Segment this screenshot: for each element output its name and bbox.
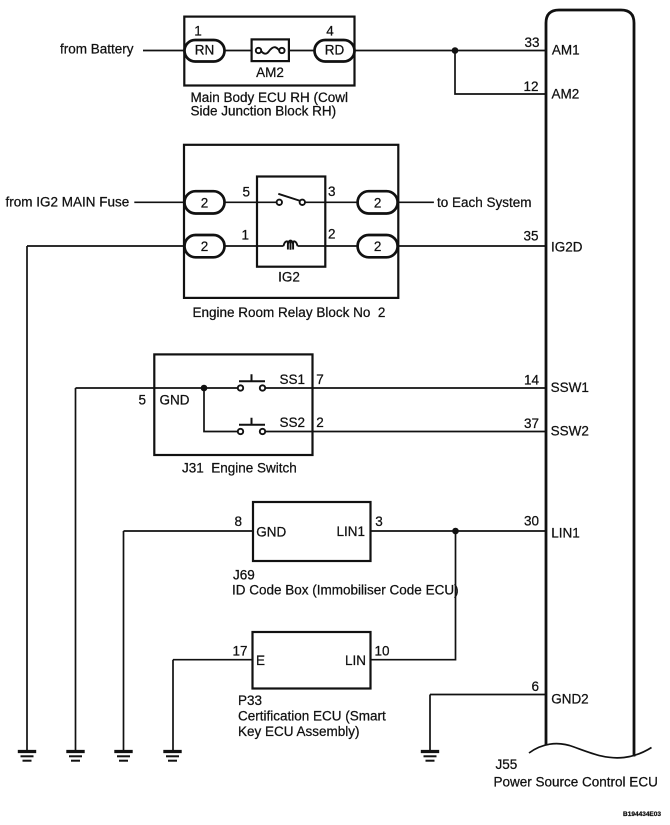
junction node on AM1 wire	[452, 47, 459, 54]
wire SS1 to J55 pin 14 SSW1	[265, 387, 546, 389]
wire left oval row1 to relay pin 5	[225, 201, 277, 203]
ground symbol 3	[114, 752, 132, 761]
svg-text:2: 2	[201, 195, 209, 210]
svg-text:IG2: IG2	[278, 270, 300, 285]
connector J55 Power Source Control ECU body	[546, 10, 634, 757]
svg-text:7: 7	[316, 372, 324, 387]
svg-text:12: 12	[523, 79, 538, 94]
svg-text:3: 3	[328, 184, 336, 199]
wire relay pin 3 to right oval row1	[305, 201, 358, 203]
svg-text:B194434E03: B194434E03	[623, 811, 661, 818]
wire SS2 to J55 pin 37 SSW2	[265, 431, 546, 433]
svg-text:LIN: LIN	[345, 653, 366, 668]
svg-text:6: 6	[531, 679, 539, 694]
ground riser 4 (from P33 E)	[172, 660, 174, 751]
svg-text:5: 5	[242, 185, 250, 200]
box P33 Certification ECU	[253, 632, 371, 689]
svg-text:ID Code Box (Immobiliser Code: ID Code Box (Immobiliser Code ECU)	[232, 583, 459, 598]
ground symbol 1	[18, 752, 36, 761]
svg-text:P33: P33	[238, 693, 262, 708]
svg-text:SS2: SS2	[280, 415, 306, 430]
switch SS2 (push button)	[238, 429, 243, 434]
svg-text:1: 1	[241, 228, 249, 243]
svg-text:from IG2 MAIN Fuse: from IG2 MAIN Fuse	[6, 195, 130, 210]
connector oval 2 (left, row 2)	[185, 235, 225, 257]
wire from IG2 MAIN Fuse to left oval row 1	[134, 201, 184, 203]
svg-text:35: 35	[523, 229, 538, 244]
svg-text:5: 5	[138, 393, 146, 408]
box Engine Room Relay Block No 2	[184, 145, 398, 298]
ground symbol 4	[163, 752, 181, 761]
svg-text:4: 4	[326, 24, 334, 39]
svg-text:LIN1: LIN1	[336, 524, 365, 539]
svg-text:GND2: GND2	[551, 692, 589, 707]
svg-text:2: 2	[374, 195, 382, 210]
ground riser 2 (from J31 GND)	[75, 388, 77, 751]
svg-text:1: 1	[194, 24, 202, 39]
svg-text:17: 17	[232, 644, 247, 659]
svg-text:AM1: AM1	[552, 43, 580, 58]
svg-text:RD: RD	[325, 43, 345, 58]
junction node inside J31	[201, 385, 208, 392]
wire P33 E (pin 17) to ground riser	[173, 659, 253, 661]
svg-text:SSW1: SSW1	[551, 380, 589, 395]
relay IG2 coil	[284, 241, 298, 246]
wire row2 left: to ground riser	[27, 245, 185, 247]
wire RD to J55 pin 33 AM1	[355, 50, 547, 52]
ground riser 5 (from GND2)	[429, 695, 431, 752]
ground symbol 2	[66, 752, 84, 761]
wire relay coil to right oval row2	[298, 245, 358, 247]
box J31 Engine Switch	[154, 354, 312, 455]
svg-text:GND: GND	[160, 393, 190, 408]
svg-text:SSW2: SSW2	[551, 424, 589, 439]
svg-text:14: 14	[524, 373, 540, 388]
svg-text:LIN1: LIN1	[551, 526, 580, 541]
wire right oval row1 to Each System	[398, 201, 434, 203]
svg-text:J55: J55	[496, 757, 518, 772]
svg-text:10: 10	[375, 644, 390, 659]
svg-text:2: 2	[316, 415, 324, 430]
relay IG2 switch contacts	[277, 200, 282, 205]
wire J55 pin 6 GND2 to ground	[430, 694, 546, 696]
svg-text:J31 Engine Switch: J31 Engine Switch	[182, 461, 297, 476]
ground symbol 5	[421, 752, 439, 761]
svg-text:Key ECU Assembly): Key ECU Assembly)	[238, 724, 360, 739]
svg-text:Certification ECU (Smart: Certification ECU (Smart	[238, 709, 386, 724]
switch SS1 (push button)	[238, 385, 243, 390]
svg-text:Engine Room Relay Block No 2: Engine Room Relay Block No 2	[193, 305, 386, 320]
wire junction down to SS2 row	[204, 388, 238, 432]
relay IG2 switch arm	[278, 194, 300, 201]
wire GND (pin5) into switch box	[76, 387, 238, 389]
svg-text:AM2: AM2	[552, 87, 580, 102]
junction node on LIN1 wire	[452, 528, 459, 535]
wire from Battery to RN	[143, 50, 185, 52]
ground riser 3 (from J69 GND)	[123, 531, 125, 751]
svg-text:E: E	[256, 653, 265, 668]
svg-text:3: 3	[375, 514, 383, 529]
svg-text:AM2: AM2	[256, 65, 284, 80]
box J69 ID Code Box	[253, 502, 371, 561]
svg-text:2: 2	[201, 239, 209, 254]
svg-text:2: 2	[328, 227, 336, 242]
connector oval 2 (left, row 1)	[185, 191, 225, 213]
wire fuse row inside box	[225, 50, 315, 52]
connector oval RN (pin 1)	[185, 40, 225, 62]
svg-text:SS1: SS1	[280, 372, 306, 387]
svg-text:Power Source Control ECU: Power Source Control ECU	[494, 775, 658, 790]
wire J69 LIN1 (pin 3) to J55 pin 30 LIN1	[371, 530, 547, 532]
connector oval 2 (right, row 1)	[358, 191, 398, 213]
fuse AM2	[252, 39, 289, 61]
ground riser 1 (from relay row2)	[26, 246, 28, 751]
svg-text:30: 30	[524, 514, 539, 529]
svg-text:33: 33	[524, 35, 539, 50]
svg-text:RN: RN	[195, 43, 215, 58]
wire right oval row2 to J55 pin 35 IG2D	[398, 245, 546, 247]
wire P33 LIN (pin 10) up to LIN1 junction	[371, 531, 456, 660]
svg-text:J69: J69	[233, 568, 255, 583]
box Main Body ECU RH (Cowl Side Junction Block RH)	[184, 17, 354, 86]
svg-text:IG2D: IG2D	[551, 240, 583, 255]
svg-text:2: 2	[374, 239, 382, 254]
connector oval 2 (right, row 2)	[358, 235, 398, 257]
wire branch to J55 pin 12 AM2	[455, 51, 546, 95]
relay IG2 inner box	[257, 177, 325, 267]
svg-text:GND: GND	[256, 525, 286, 540]
svg-text:37: 37	[524, 416, 539, 431]
svg-text:8: 8	[234, 514, 242, 529]
svg-text:to Each System: to Each System	[437, 195, 532, 210]
connector oval RD (pin 4)	[315, 40, 355, 62]
torn-edge wave at bottom of J55	[529, 744, 652, 758]
svg-text:from Battery: from Battery	[60, 42, 134, 57]
wire J69 GND (pin 8) to ground riser	[124, 530, 254, 532]
wire left oval row2 to relay coil	[225, 245, 284, 247]
svg-text:Side Junction Block RH): Side Junction Block RH)	[191, 104, 337, 119]
